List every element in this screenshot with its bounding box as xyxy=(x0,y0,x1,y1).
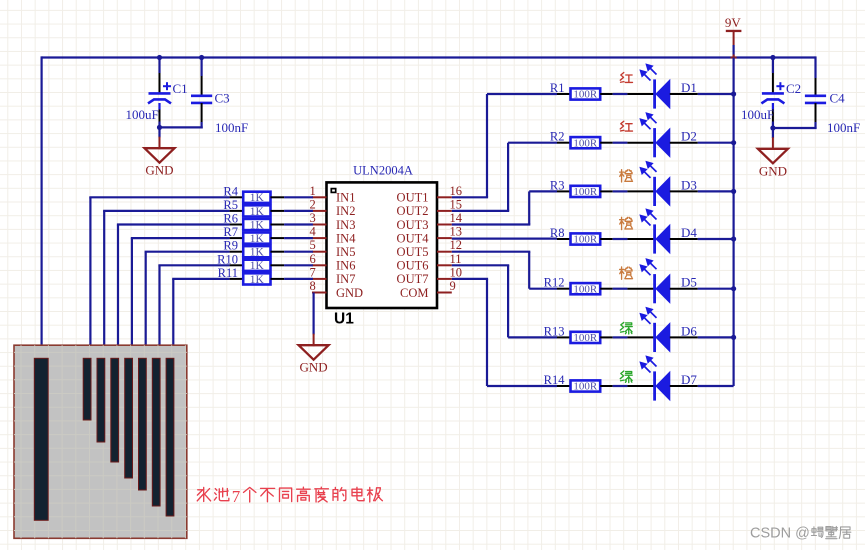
svg-text:9V: 9V xyxy=(725,15,742,30)
svg-text:R2: R2 xyxy=(550,130,565,144)
svg-text:1K: 1K xyxy=(250,274,265,286)
svg-text:R6: R6 xyxy=(223,212,238,226)
svg-text:IN1: IN1 xyxy=(336,191,355,205)
svg-text:OUT7: OUT7 xyxy=(397,272,429,286)
svg-text:1K: 1K xyxy=(250,233,265,245)
svg-text:IN2: IN2 xyxy=(336,204,355,218)
svg-text:OUT2: OUT2 xyxy=(397,204,429,218)
svg-text:100nF: 100nF xyxy=(827,120,860,135)
svg-text:1: 1 xyxy=(310,184,316,198)
svg-text:R1: R1 xyxy=(550,81,565,95)
svg-text:R8: R8 xyxy=(550,226,565,240)
svg-text:CSDN @: CSDN @ xyxy=(750,526,810,542)
svg-text:11: 11 xyxy=(450,252,462,266)
svg-text:GND: GND xyxy=(336,286,363,300)
svg-text:R7: R7 xyxy=(223,225,238,239)
svg-text:1K: 1K xyxy=(250,206,265,218)
svg-text:100R: 100R xyxy=(573,332,598,344)
svg-text:C4: C4 xyxy=(830,91,846,106)
svg-text:1K: 1K xyxy=(250,192,265,204)
svg-text:16: 16 xyxy=(450,184,463,198)
svg-text:OUT3: OUT3 xyxy=(397,218,429,232)
svg-text:COM: COM xyxy=(400,286,428,300)
svg-text:IN4: IN4 xyxy=(336,231,356,245)
svg-text:IN3: IN3 xyxy=(336,218,355,232)
svg-text:100R: 100R xyxy=(573,137,598,149)
svg-text:13: 13 xyxy=(450,225,463,239)
svg-text:R14: R14 xyxy=(544,373,566,387)
svg-text:IN7: IN7 xyxy=(336,272,355,286)
svg-text:R10: R10 xyxy=(217,252,238,266)
svg-text:4: 4 xyxy=(310,225,317,239)
svg-text:OUT1: OUT1 xyxy=(397,191,429,205)
svg-text:R13: R13 xyxy=(544,324,565,338)
svg-text:IN5: IN5 xyxy=(336,245,355,259)
svg-text:IN6: IN6 xyxy=(336,259,355,273)
svg-text:D2: D2 xyxy=(681,129,697,144)
svg-text:14: 14 xyxy=(450,211,463,225)
svg-text:C2: C2 xyxy=(786,81,801,96)
svg-text:6: 6 xyxy=(310,252,316,266)
svg-text:8: 8 xyxy=(310,279,316,293)
svg-text:100nF: 100nF xyxy=(215,120,248,135)
svg-text:7: 7 xyxy=(310,265,316,279)
svg-text:R11: R11 xyxy=(218,266,238,280)
svg-text:15: 15 xyxy=(450,197,463,211)
svg-text:D5: D5 xyxy=(681,275,697,290)
svg-text:D4: D4 xyxy=(681,225,697,240)
svg-text:R3: R3 xyxy=(550,178,565,192)
svg-text:ULN2004A: ULN2004A xyxy=(353,164,413,178)
svg-text:C1: C1 xyxy=(173,81,188,96)
svg-text:1K: 1K xyxy=(250,219,265,231)
svg-text:R4: R4 xyxy=(223,184,238,198)
svg-text:OUT5: OUT5 xyxy=(397,245,429,259)
svg-text:100R: 100R xyxy=(573,283,598,295)
svg-text:C3: C3 xyxy=(215,91,230,106)
svg-text:100uF: 100uF xyxy=(741,107,774,122)
svg-text:5: 5 xyxy=(310,238,316,252)
svg-text:GND: GND xyxy=(145,163,173,178)
svg-text:7: 7 xyxy=(232,487,241,506)
svg-text:100R: 100R xyxy=(573,89,598,101)
svg-text:U1: U1 xyxy=(334,311,354,328)
svg-text:GND: GND xyxy=(759,163,787,178)
svg-text:100R: 100R xyxy=(573,234,598,246)
svg-text:100uF: 100uF xyxy=(126,107,159,122)
svg-text:100R: 100R xyxy=(573,186,598,198)
svg-text:GND: GND xyxy=(300,360,328,375)
svg-text:12: 12 xyxy=(450,238,463,252)
svg-text:D7: D7 xyxy=(681,372,697,387)
svg-text:10: 10 xyxy=(450,265,463,279)
svg-text:OUT6: OUT6 xyxy=(397,259,429,273)
svg-text:R5: R5 xyxy=(223,198,238,212)
svg-text:OUT4: OUT4 xyxy=(397,231,430,245)
svg-text:1K: 1K xyxy=(250,247,265,259)
svg-text:R12: R12 xyxy=(544,276,565,290)
svg-text:2: 2 xyxy=(310,197,316,211)
svg-text:D6: D6 xyxy=(681,323,697,338)
svg-text:3: 3 xyxy=(310,211,316,225)
svg-text:R9: R9 xyxy=(223,239,238,253)
svg-text:9: 9 xyxy=(450,279,456,293)
svg-text:100R: 100R xyxy=(573,381,598,393)
svg-text:1K: 1K xyxy=(250,260,265,272)
svg-text:D1: D1 xyxy=(681,80,697,95)
svg-text:D3: D3 xyxy=(681,177,697,192)
